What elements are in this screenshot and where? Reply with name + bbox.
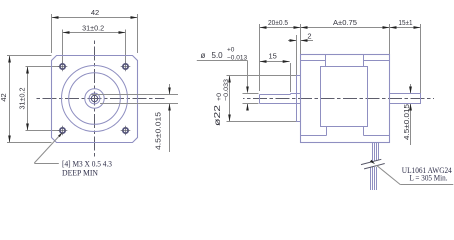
extension line bottom-left hole to vertical 31 dim — [26, 130, 60, 132]
wire break mark upper — [361, 159, 381, 164]
hub circle — [85, 89, 104, 108]
leader to wire note — [377, 165, 401, 184]
front cap corner line top — [301, 60, 326, 62]
shaft bottom extension line to 4.5 dim — [100, 103, 178, 105]
svg-text:31±0.2: 31±0.2 — [82, 23, 104, 32]
svg-text:L = 305 Min.: L = 305 Min. — [410, 173, 448, 182]
svg-text:5.0: 5.0 — [212, 51, 224, 60]
extension line stub end up to 15±1 dim — [420, 24, 422, 93]
svg-text:ø: ø — [201, 51, 206, 60]
svg-text:42: 42 — [0, 93, 8, 101]
body circle outer — [62, 66, 128, 132]
mounting hole M3 bottom-left — [60, 128, 65, 133]
dimension 2 pilot boss height — [296, 35, 298, 76]
lead wires lower — [370, 167, 372, 190]
extension line left holes up to 31 dim — [62, 30, 64, 63]
shaft bottom line — [260, 103, 301, 105]
leader from bottom-left hole to thread note — [34, 134, 61, 164]
shaft inner circle — [91, 95, 97, 101]
extension line body rear up to dims — [389, 24, 391, 55]
extension line top-left corner to vertical 42 dim — [7, 55, 52, 57]
extension line top-left hole to vertical 31 dim — [26, 66, 60, 68]
svg-text:[4] M3 X 0.5 4.3: [4] M3 X 0.5 4.3 — [62, 160, 112, 169]
rear cap joint vertical bottom — [363, 127, 365, 136]
front cap corner line bottom — [301, 135, 327, 137]
svg-text:20±0.5: 20±0.5 — [268, 18, 288, 27]
svg-text:ø22: ø22 — [213, 104, 222, 126]
shaft flat top line — [260, 94, 291, 96]
svg-text:DEEP MIN: DEEP MIN — [62, 169, 98, 178]
svg-text:31±0.2: 31±0.2 — [17, 88, 26, 110]
dimension 31±0.2 vertical left — [27, 67, 29, 131]
shaft full-diameter top line — [291, 93, 301, 95]
svg-text:4.5±0.015: 4.5±0.015 — [402, 104, 411, 140]
extension line bottom-left corner to vertical 42 dim — [7, 142, 52, 144]
dimension 15±1 — [390, 27, 421, 29]
mounting hole M3 top-left — [60, 64, 65, 69]
rear shaft stub — [390, 94, 421, 104]
svg-text:42: 42 — [91, 8, 99, 17]
wire break mark lower — [364, 164, 385, 169]
rear cap corner line top — [364, 60, 390, 62]
center line of side view — [243, 98, 434, 100]
shaft step at flat end — [290, 94, 292, 95]
stator middle rectangle — [321, 67, 368, 127]
lead wires upper — [372, 143, 374, 165]
front cap joint vertical bottom — [326, 127, 328, 136]
svg-text:+0: +0 — [227, 47, 235, 54]
svg-text:A±0.75: A±0.75 — [333, 18, 357, 27]
dimension 31±0.2 horizontal — [63, 32, 126, 34]
dimension 4.5±0.015 rear shaft — [410, 84, 412, 94]
flange outline square with chamfered corners — [52, 56, 138, 143]
extension line right holes up to 31 dim — [125, 30, 127, 63]
dimension 42 horizontal top — [52, 17, 138, 19]
svg-text:−0.033: −0.033 — [223, 79, 230, 101]
mounting hole M3 bottom-right — [123, 128, 128, 133]
dimension ø5.0 +0/-0.013 — [197, 60, 248, 62]
extension line left edge up to 42 dim — [51, 14, 53, 53]
pilot boss circle — [69, 73, 121, 125]
pilot boss side view — [297, 76, 301, 122]
svg-text:15: 15 — [269, 51, 277, 60]
center line horizontal of front view — [35, 98, 165, 100]
rear cap joint vertical top — [363, 55, 365, 67]
mounting hole M3 top-right — [123, 64, 128, 69]
dimension ø22 +0/-0.033 vertical — [227, 75, 297, 77]
shaft flat line and extension to 4.5 dim — [91, 94, 178, 96]
svg-text:15±1: 15±1 — [399, 18, 413, 27]
shaft tip — [259, 95, 261, 104]
wire break white gap — [361, 159, 385, 169]
shaft diameter extension lines left of tip — [243, 93, 259, 95]
svg-text:2: 2 — [307, 31, 311, 40]
extension line mounting face up to dims — [300, 24, 302, 55]
rear cap corner line bottom — [364, 135, 390, 137]
svg-text:4.5±0.015: 4.5±0.015 — [153, 112, 162, 150]
dimension 4.5±0.015 front view — [169, 84, 171, 95]
center line vertical of front view — [94, 39, 96, 159]
extension line right edge up to 42 dim — [137, 14, 139, 53]
extension line shaft tip up to 20 dim — [259, 24, 261, 91]
motor body outline — [301, 55, 390, 143]
extension line flat end down to shaft — [290, 63, 292, 92]
svg-text:+0: +0 — [216, 93, 223, 101]
dimension 42 vertical left — [9, 56, 11, 143]
dimension A±0.75 — [301, 27, 390, 29]
svg-text:−0.013: −0.013 — [227, 54, 247, 61]
dimension 15 shaft flat length — [260, 61, 290, 63]
front cap joint vertical top — [325, 55, 327, 67]
shaft circle — [89, 93, 100, 104]
dimension 20±0.5 — [260, 27, 301, 29]
